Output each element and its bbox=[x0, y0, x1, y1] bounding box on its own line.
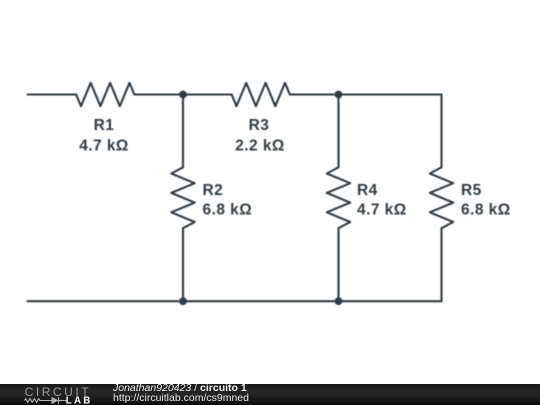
resistor R5 bbox=[430, 167, 453, 228]
svg-text:6.8 kΩ: 6.8 kΩ bbox=[461, 201, 511, 218]
wire top-middle bbox=[134, 93, 231, 95]
resistor R2 bbox=[171, 167, 194, 228]
node B (R3/R4/R5 junction) bbox=[335, 91, 343, 99]
wire R4 upper lead bbox=[337, 95, 339, 168]
svg-text:4.7 kΩ: 4.7 kΩ bbox=[79, 138, 129, 155]
svg-text:R5: R5 bbox=[461, 182, 482, 199]
credits text bbox=[113, 383, 249, 404]
wire R2 upper lead bbox=[182, 95, 184, 168]
resistor R1 bbox=[76, 83, 134, 106]
node A (R1/R3/R2 junction) bbox=[179, 91, 187, 99]
svg-text:R1: R1 bbox=[94, 117, 115, 134]
wire R4 lower lead bbox=[337, 228, 339, 301]
node C (bottom R2 junction) bbox=[179, 297, 187, 305]
svg-text:R2: R2 bbox=[203, 182, 224, 199]
svg-text:4.7 kΩ: 4.7 kΩ bbox=[357, 201, 407, 218]
svg-text:R3: R3 bbox=[249, 117, 270, 134]
footer bar bbox=[0, 384, 540, 405]
wire top-left lead bbox=[28, 93, 77, 95]
svg-text:LAB: LAB bbox=[66, 395, 93, 405]
node D (bottom R4 junction) bbox=[335, 297, 343, 305]
CircuitLab logo bbox=[0, 384, 100, 405]
logo diode triangle bbox=[52, 397, 59, 404]
wire top-right bbox=[290, 93, 442, 95]
wire bottom bbox=[28, 300, 442, 302]
svg-text:2.2 kΩ: 2.2 kΩ bbox=[235, 138, 285, 155]
resistor R4 bbox=[327, 167, 350, 228]
resistor R3 bbox=[232, 83, 290, 106]
svg-text:6.8 kΩ: 6.8 kΩ bbox=[203, 201, 253, 218]
logo resistor squiggle and diode bbox=[25, 397, 68, 404]
wire R2 lower lead bbox=[182, 228, 184, 301]
wire R5 upper lead bbox=[440, 95, 442, 168]
svg-text:R4: R4 bbox=[357, 182, 378, 199]
wire R5 lower lead bbox=[440, 228, 442, 301]
